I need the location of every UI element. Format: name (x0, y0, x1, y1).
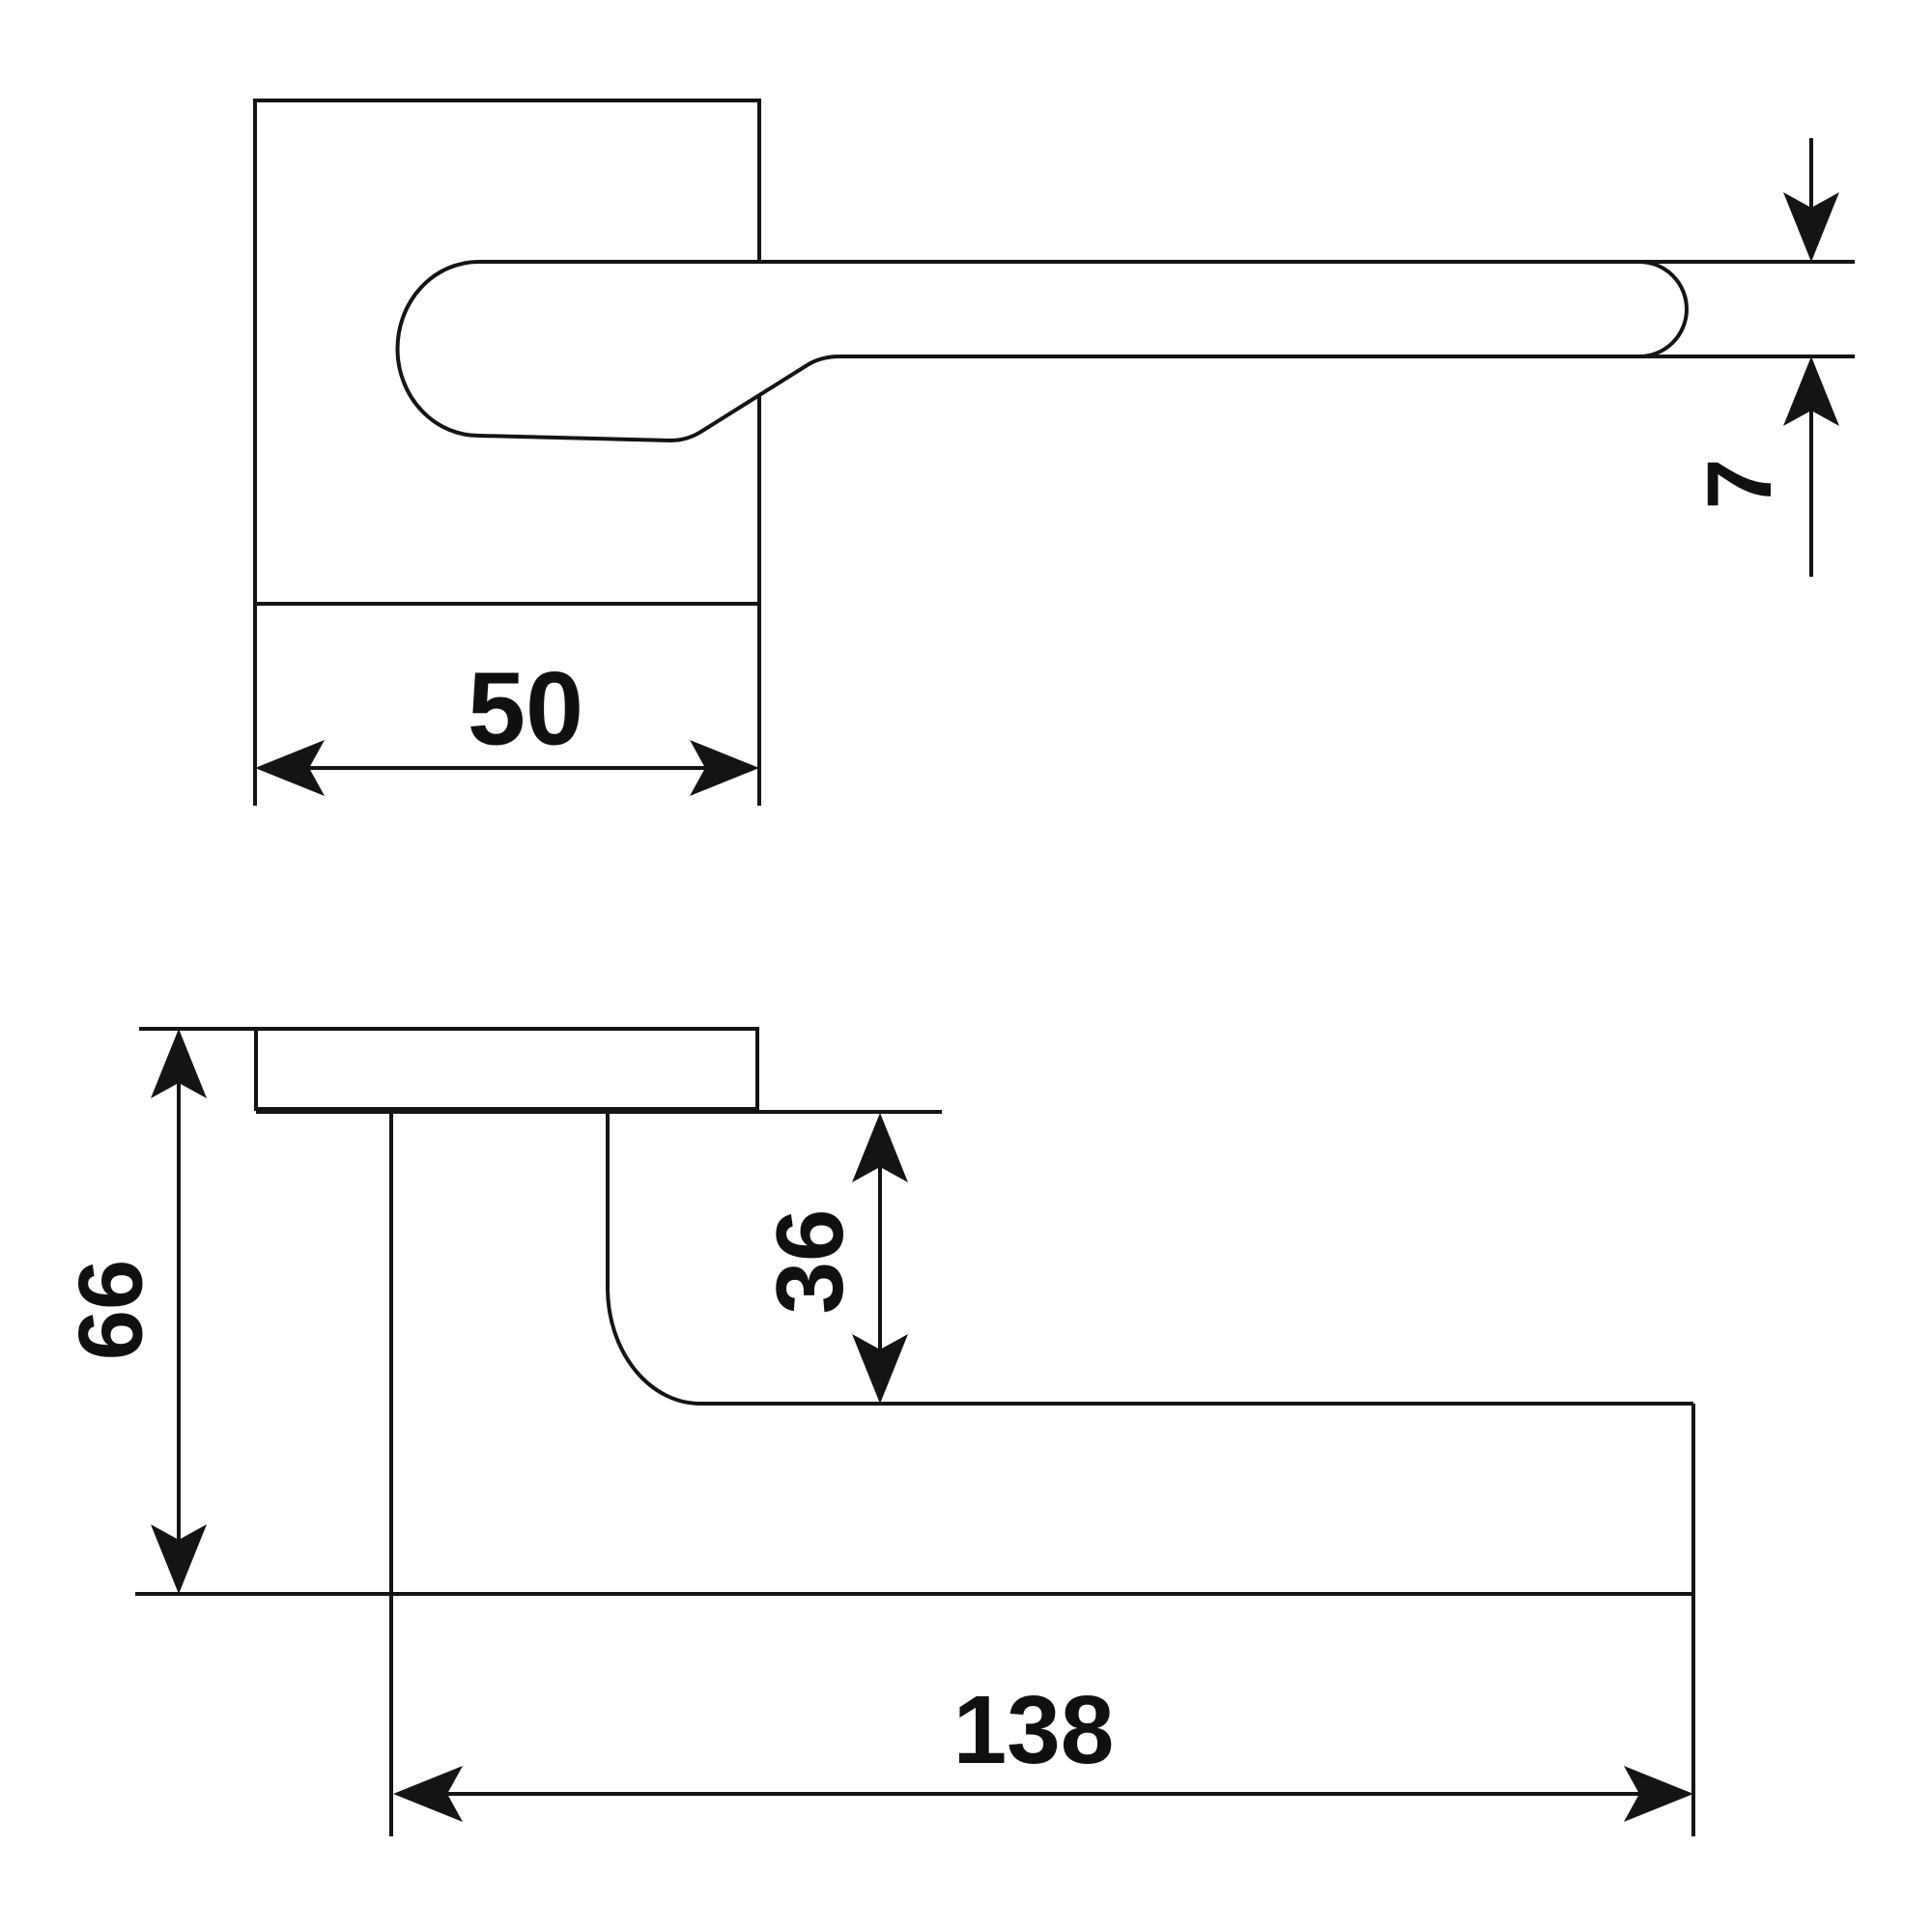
neck right edge (606, 1112, 610, 1290)
extension line 7 top (1639, 260, 1855, 264)
arrow 50 left (255, 740, 325, 796)
side view: rose plate (256, 1029, 757, 1109)
dimension line 50 (307, 766, 707, 770)
dimension 7 lower arrow (1809, 410, 1813, 577)
arrow 50 right (690, 740, 759, 796)
grip bar top edge (side view) (700, 1402, 1693, 1406)
arrow 138 right (1624, 1766, 1693, 1822)
extension line 50 left (253, 604, 257, 806)
svg-text:7: 7 (1689, 459, 1791, 510)
rose plate square (front view) (255, 100, 759, 604)
side view: rose plate top extension line (66) (139, 1027, 256, 1031)
lever handle outline (front view) (397, 262, 1687, 440)
dimension 36 line (878, 1167, 882, 1350)
arrow 36 top (852, 1113, 908, 1182)
svg-text:66: 66 (60, 1260, 161, 1361)
svg-text:50: 50 (468, 650, 583, 767)
extension line 7 bottom (1639, 355, 1855, 358)
neck inner fillet (608, 1290, 700, 1404)
svg-text:138: 138 (953, 1676, 1115, 1784)
dimension 66 line (177, 1083, 181, 1540)
neck left edge + 138 left extension (389, 1109, 393, 1836)
grip bar right edge + 138 right extension (1691, 1404, 1695, 1836)
arrow 66 bottom (151, 1524, 207, 1594)
arrow 36 bottom (852, 1334, 908, 1404)
svg-text:36: 36 (756, 1208, 863, 1314)
dimension 138 line (445, 1792, 1641, 1796)
arrow 66 top (151, 1029, 207, 1098)
extension line 50 right (757, 604, 761, 806)
door surface line (256, 1110, 942, 1114)
dimension 7 upper arrow (1809, 138, 1813, 209)
grip bar bottom edge + 66 bottom extension (135, 1592, 1693, 1596)
arrow 138 left (393, 1766, 463, 1822)
